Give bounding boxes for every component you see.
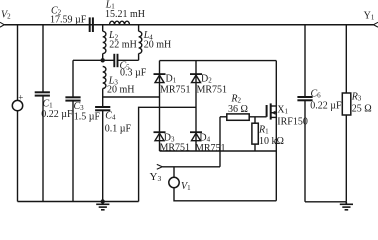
svg-text:MR751: MR751 [160,85,191,96]
svg-text:15.21 mH: 15.21 mH [105,9,145,20]
capacitor C2 [90,17,93,32]
wire R1 top stub [254,117,256,123]
wire C5 to L4 [118,59,139,61]
svg-text:20 mH: 20 mH [144,40,172,51]
wire left source branch lower [17,111,19,202]
inductor L2 [103,31,106,53]
capacitor C1 [35,92,50,95]
junction node dot [101,58,105,62]
svg-text:20 mH: 20 mH [107,85,135,96]
svg-text:+: + [18,92,23,102]
svg-text:22 mH: 22 mH [109,40,137,51]
inductor L3 [103,67,106,89]
wire L4 bottom lead [138,54,140,61]
wire bottom right rail [305,201,346,203]
wire C3 branch upper [72,60,74,97]
capacitor C3 [65,97,80,100]
wire R3 top lead [345,25,347,93]
inductor L4 [139,31,142,53]
ground right [340,202,353,210]
svg-text:1.5 µF: 1.5 µF [74,112,101,123]
wire top rail [4,24,373,26]
source circle left [12,100,22,110]
svg-text:IRF150: IRF150 [277,117,308,128]
wire C4 branch lower [102,110,104,201]
wire left source branch upper [17,25,19,101]
wire bottom left rail [18,201,139,203]
wire L2 branch top [102,25,104,32]
ground left [96,202,109,210]
wire C3 branch lower [72,101,74,202]
wire bridge left leg [159,61,161,151]
svg-text:R1: R1 [258,124,269,135]
wire bridge right leg [195,61,197,151]
wire R3 bottom lead [345,115,347,202]
svg-text:10 kΩ: 10 kΩ [259,136,284,147]
resistor R1 [252,123,258,144]
svg-text:0.3 µF: 0.3 µF [120,67,147,78]
capacitor C5 [114,54,117,67]
svg-text:0.22 µF: 0.22 µF [310,100,342,111]
wire gate drive vertical [219,117,221,167]
svg-text:MR751: MR751 [195,143,226,154]
source circle V1 [169,177,179,187]
svg-text:36 Ω: 36 Ω [228,104,248,115]
svg-text:0.1 µF: 0.1 µF [105,124,132,135]
wire bridge top rail [160,60,277,62]
wire C5 row [73,59,114,61]
capacitor C6 [297,97,312,100]
diode D2 [190,74,202,83]
svg-text:25 Ω: 25 Ω [352,103,372,114]
wire C6 branch upper [304,25,306,97]
wire bridge AC2 branch [139,107,196,201]
wire Y3 row [162,166,220,168]
diode D4 [190,132,202,141]
svg-text:MR751: MR751 [197,85,228,96]
wire L3 bottom lead [102,89,104,98]
wire V1 bottom lead [174,188,276,201]
wire gate lead [249,116,266,118]
svg-text:R3: R3 [351,91,362,102]
svg-text:D2: D2 [201,73,212,84]
svg-text:C3: C3 [74,101,85,112]
wire L2 bottom lead [102,54,104,61]
svg-text:X1: X1 [277,104,288,115]
inductor L1 [110,21,130,25]
resistor R3 [342,93,351,115]
node V2 input arrow [0,22,4,27]
wire C4 top lead [102,97,104,107]
wire L4 branch top [138,25,140,32]
wire bridge bottom rail [160,150,277,152]
node Y1 output arrow [374,22,378,27]
svg-text:17.59 µF: 17.59 µF [50,15,87,26]
wire C6 branch lower [304,100,306,202]
svg-text:Y3: Y3 [150,171,162,183]
junction node dot bottom [101,199,105,203]
diode D3 [154,132,166,141]
svg-text:C1: C1 [43,99,54,110]
svg-text:MR751: MR751 [160,142,191,153]
transistor X1 [267,103,277,119]
wire C1 branch lower [42,96,44,202]
svg-text:V1: V1 [181,181,191,192]
wire R2 left lead [220,116,227,118]
svg-text:Y1: Y1 [364,10,375,21]
svg-text:V2: V2 [1,9,11,20]
wire R1 bottom stub [254,144,256,151]
wire C1 branch upper [42,25,44,92]
svg-text:D1: D1 [166,73,177,84]
svg-text:0.22 µF: 0.22 µF [41,109,73,120]
resistor R2 [227,114,249,120]
svg-text:C6: C6 [311,88,322,99]
wire V1 top lead [173,167,175,178]
wire bridge AC1 row [103,96,160,98]
wire drain source bus [275,61,277,201]
diode D1 [154,74,166,83]
node Y3 probe arrow [157,164,163,169]
svg-text:C4: C4 [105,110,116,121]
capacitor C4 [95,107,110,110]
